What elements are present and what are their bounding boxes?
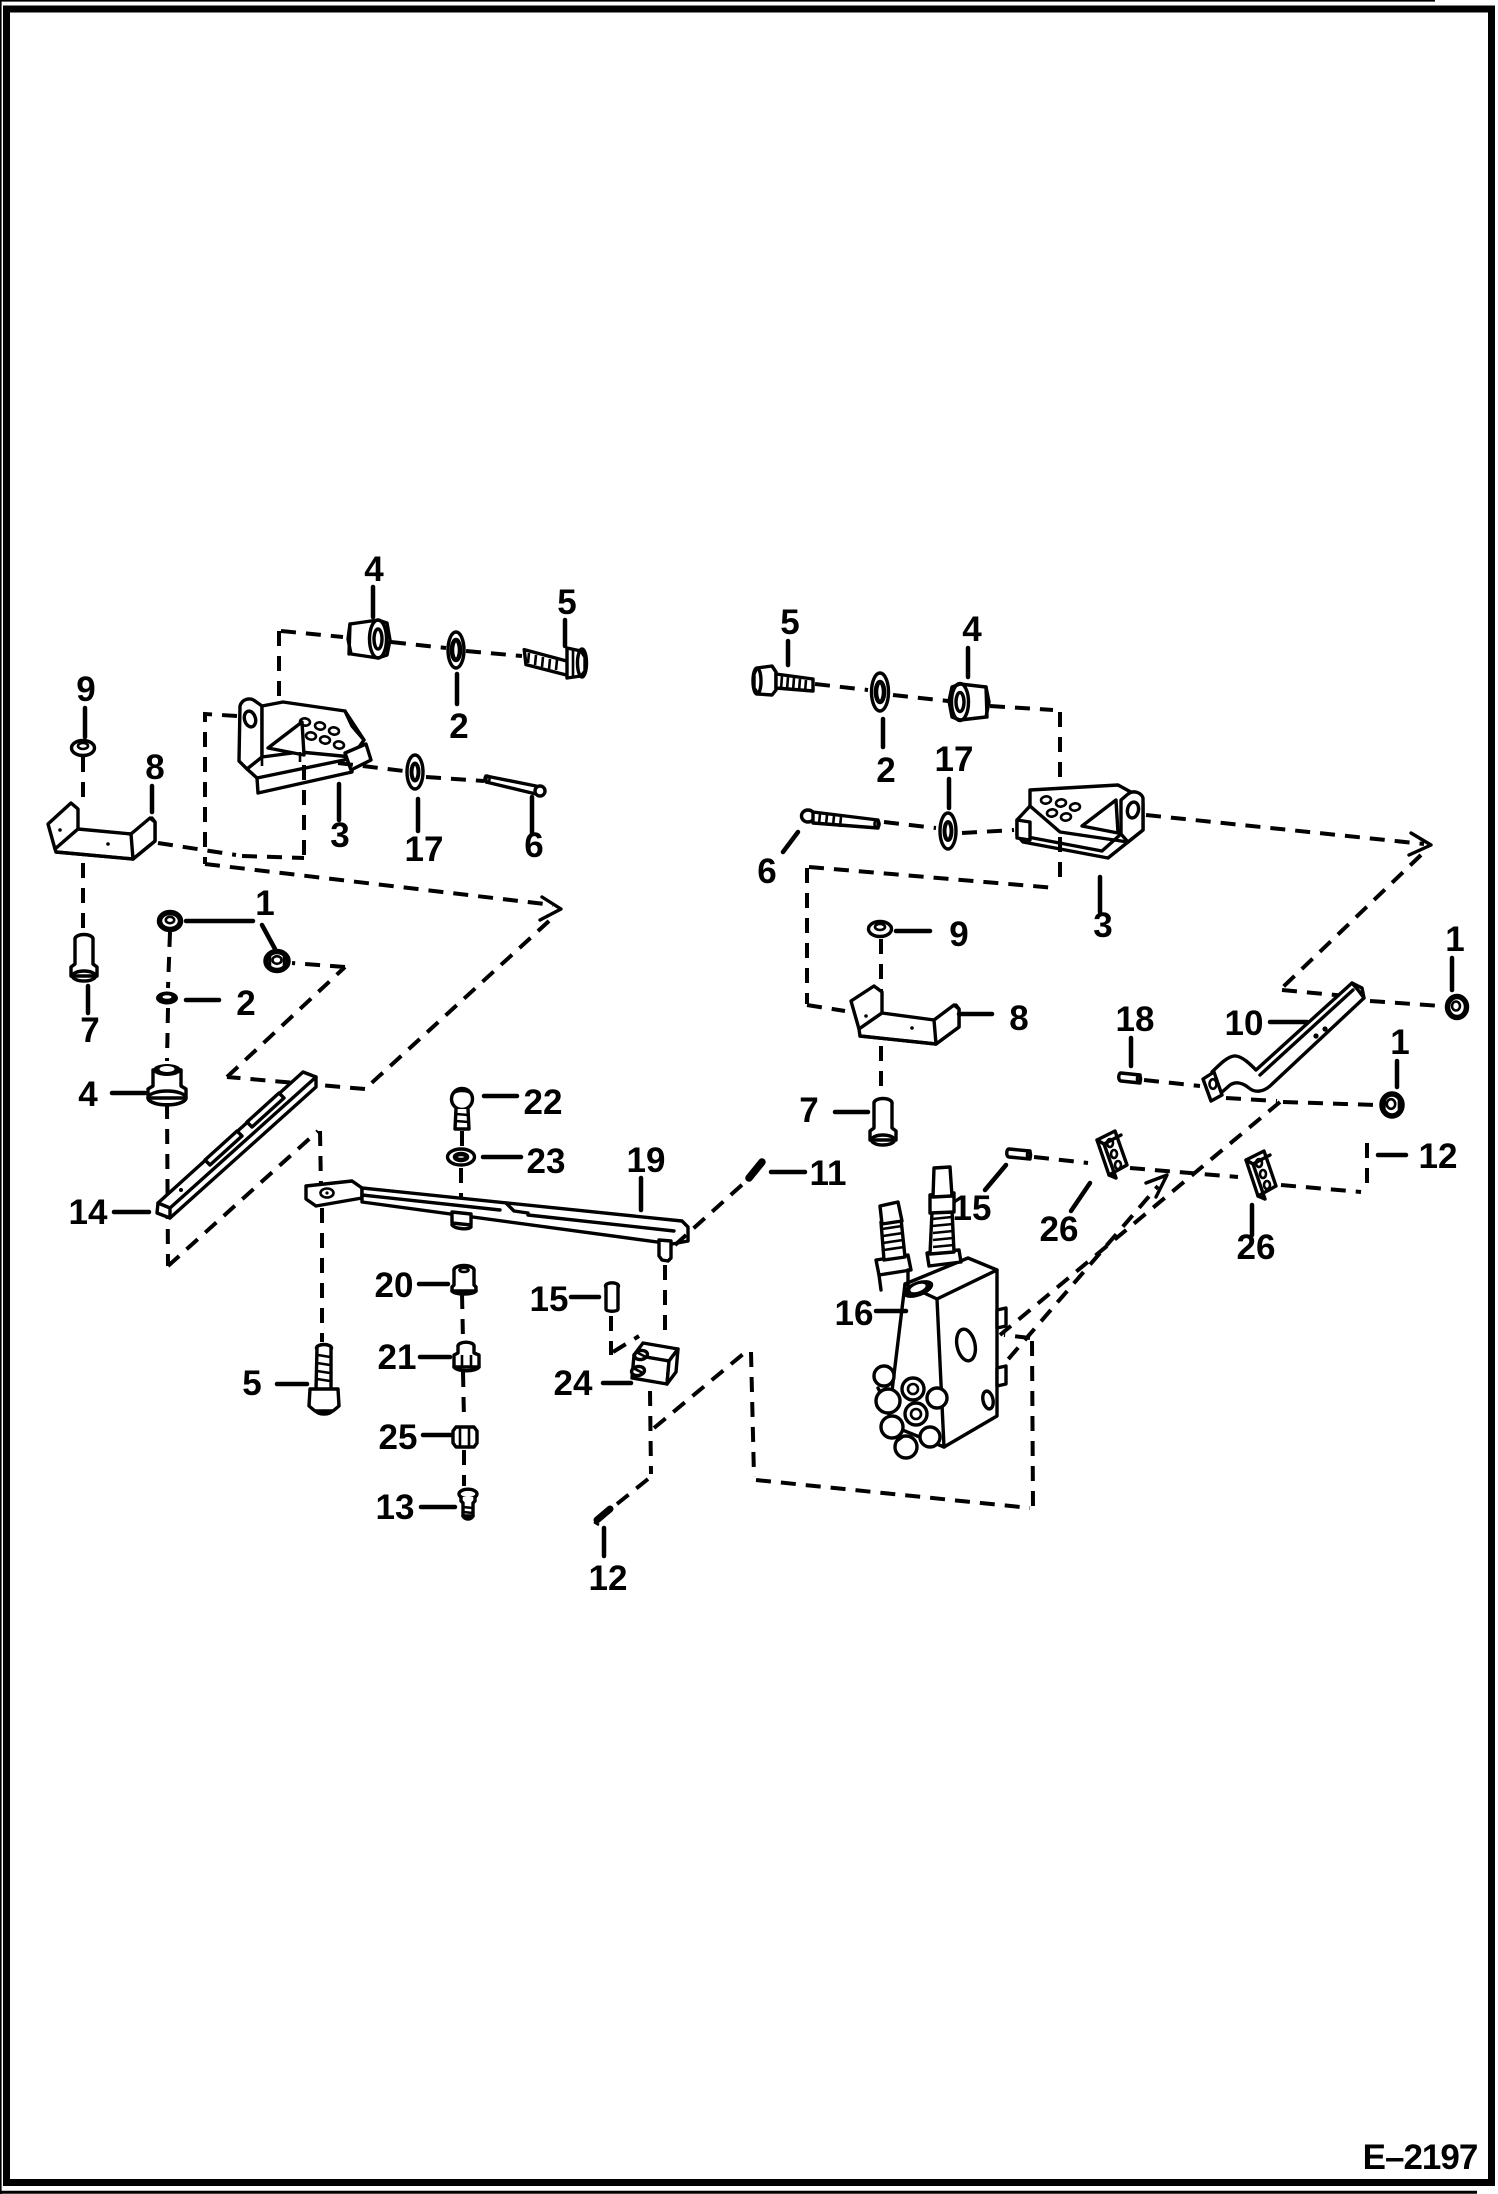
bolt 7 (left, carriage): [71, 935, 97, 982]
pin 15 (center): [606, 1283, 619, 1311]
svg-text:23: 23: [527, 1142, 566, 1181]
label 8 (left): [145, 748, 164, 812]
border thin left edge: [0, 0, 2, 2194]
valve stem right: [927, 1250, 961, 1266]
label 13: [376, 1488, 455, 1527]
svg-text:13: 13: [376, 1488, 415, 1527]
wire dashed channel8L to bracket corner: [158, 764, 304, 858]
svg-text:1: 1: [1390, 1023, 1409, 1062]
strap 26 (second): [1246, 1151, 1276, 1199]
label 4 (right): [962, 610, 982, 677]
label 8 (right): [959, 999, 1029, 1038]
wire dashed pin15 to clamp24: [611, 1316, 639, 1355]
label 17 (left): [405, 799, 444, 869]
wire dashed apex down-left to corner and to lever10: [1282, 855, 1441, 1006]
channel bracket 8 (left): [48, 803, 155, 859]
label 15 (center): [530, 1280, 599, 1319]
label 17 (right): [935, 740, 974, 808]
nut 1 (upper small, left): [160, 913, 181, 930]
svg-text:7: 7: [799, 1091, 818, 1130]
washer 17 (right): [940, 813, 956, 849]
svg-text:7: 7: [80, 1011, 99, 1050]
label 1 (right lower): [1390, 1023, 1409, 1087]
label 2 (left lower): [186, 984, 256, 1023]
border thin top edge: [0, 0, 1435, 2]
svg-text:3: 3: [1093, 906, 1112, 945]
bolt 6 (right): [802, 810, 880, 828]
label 18: [1116, 1000, 1155, 1066]
wire dashed corner down to bracket 3L: [277, 631, 281, 719]
washer 9 (left): [72, 741, 95, 756]
arrowhead apex left wedge: [540, 897, 561, 920]
label 2 (top left): [449, 674, 468, 746]
label 24: [554, 1364, 631, 1403]
dashed outline left plate wedge: [205, 714, 553, 905]
label 16: [835, 1294, 906, 1333]
wire dashed bracket3L to pin6L: [338, 763, 484, 781]
svg-text:8: 8: [1009, 999, 1028, 1038]
label 3 (right): [1093, 877, 1112, 945]
svg-text:17: 17: [405, 830, 444, 869]
washer 23: [448, 1149, 475, 1165]
bushing 4 (right): [949, 684, 989, 721]
label 1 (left) with bent leader: [186, 884, 275, 949]
arrowhead on diagonal: [1146, 1175, 1167, 1197]
wire dashed clamp24 down and to pin 12: [617, 1391, 651, 1504]
label 4 (top left): [364, 550, 384, 617]
svg-text:2: 2: [449, 707, 468, 746]
svg-text:9: 9: [76, 670, 95, 709]
label 22: [484, 1083, 562, 1122]
valve stem left: [876, 1255, 911, 1275]
svg-text:19: 19: [627, 1141, 666, 1180]
svg-text:11: 11: [810, 1154, 847, 1193]
svg-text:4: 4: [364, 550, 384, 589]
label 5 (center-left): [242, 1364, 307, 1403]
svg-text:5: 5: [557, 583, 576, 622]
label 6 (left): [524, 797, 543, 865]
wire dashed lever19 right end to pin 11: [675, 1183, 744, 1245]
fitting 21: [454, 1342, 479, 1371]
valve top detail: [900, 1276, 935, 1301]
svg-text:21: 21: [378, 1338, 417, 1377]
svg-text:1: 1: [255, 884, 274, 923]
svg-text:4: 4: [78, 1075, 98, 1114]
lever 19: [306, 1181, 688, 1261]
wire dashed lever10 lower line to nut: [1226, 1098, 1376, 1105]
label 21: [378, 1338, 450, 1377]
label 5 (top left): [557, 583, 576, 646]
wire dashed vertical nut1-washer2-bushing4 (left): [167, 932, 170, 1266]
svg-text:2: 2: [236, 984, 255, 1023]
nut 25: [453, 1427, 477, 1447]
bushing 20: [452, 1266, 476, 1295]
channel bracket 8 (right): [851, 986, 959, 1044]
strap 14: [157, 1072, 316, 1218]
wire dashed 12 right bracket: [1365, 1143, 1369, 1190]
svg-text:14: 14: [69, 1193, 108, 1232]
label 19: [627, 1141, 666, 1210]
svg-text:5: 5: [780, 603, 799, 642]
bolt 7 (right, carriage): [870, 1099, 896, 1146]
label 7 (left): [80, 986, 99, 1050]
washer 2 (top left): [448, 632, 464, 668]
label 12 (center): [589, 1528, 628, 1598]
bolt 13: [459, 1489, 477, 1519]
wire dashed bolt5R-washer2R-bushing4R: [815, 684, 1053, 710]
wire dashed bushing4L to bolt5L: [281, 631, 522, 656]
pin 18: [1119, 1073, 1141, 1083]
bolt 5 (top left): [524, 648, 587, 678]
dashed wedge return edges: [227, 921, 549, 1089]
washer 2 (left lower small): [156, 992, 178, 1005]
pin 11: [749, 1162, 762, 1178]
label 3 (left): [330, 784, 349, 855]
svg-text:8: 8: [145, 748, 164, 787]
wire dashed bolt22-washer23-lever19: [461, 1131, 462, 1211]
svg-text:17: 17: [935, 740, 974, 779]
bushing 4 (left lower): [148, 1064, 186, 1105]
wire dashed bushing4R corner down: [1058, 712, 1062, 884]
svg-text:22: 22: [524, 1083, 563, 1122]
wire dashed washer9R down to channel8R: [879, 939, 883, 1012]
label 11: [771, 1154, 847, 1193]
label 4 (left lower): [78, 1075, 145, 1114]
label 26 (first): [1040, 1183, 1090, 1249]
label 25: [379, 1418, 451, 1457]
wire dashed bolt6R-washer17R-bracket3R: [884, 822, 1014, 833]
svg-text:24: 24: [554, 1364, 593, 1403]
pin 15 (right): [1007, 1149, 1031, 1159]
svg-text:20: 20: [375, 1266, 414, 1305]
bracket 3 (right): [1017, 785, 1143, 858]
svg-text:26: 26: [1040, 1210, 1079, 1249]
svg-text:12: 12: [589, 1559, 628, 1598]
label 6 (right): [757, 832, 798, 891]
svg-text:9: 9: [949, 915, 968, 954]
label 1 (right upper): [1445, 920, 1464, 990]
label 20: [375, 1266, 448, 1305]
label 15 (right): [953, 1165, 1006, 1228]
pin 12 (center): [594, 1509, 610, 1525]
border thin bottom edge: [0, 2191, 1477, 2194]
wire dashed fittings chain: [462, 1294, 464, 1486]
svg-text:10: 10: [1225, 1004, 1264, 1043]
bushing 4 (top left): [348, 620, 390, 658]
svg-text:18: 18: [1116, 1000, 1155, 1039]
wire dashed long diagonal lever10 corner to valve: [1000, 1102, 1280, 1335]
label 7 (right): [799, 1091, 868, 1130]
valve 16: [874, 1167, 1006, 1458]
clamp 24: [631, 1343, 678, 1384]
svg-text:4: 4: [962, 610, 982, 649]
bolt 5 (right): [753, 666, 813, 695]
strap 26 (first): [1097, 1131, 1127, 1178]
bolt 5 (center-left, vertical): [309, 1345, 339, 1415]
svg-text:1: 1: [1445, 920, 1464, 959]
washer 9 (right): [869, 922, 892, 937]
washer 2 (right): [872, 673, 889, 711]
wire dashed pin15R through straps 26: [1034, 1157, 1361, 1192]
svg-text:12: 12: [1419, 1137, 1458, 1176]
wire dashed washer9 down through channel8L to bolt7L: [81, 757, 85, 930]
wire dashed channel8R down to bolt7R: [879, 1046, 883, 1096]
svg-text:E–2197: E–2197: [1363, 2138, 1478, 2177]
bracket 3 (left): [239, 699, 371, 793]
label 12 (right): [1378, 1137, 1457, 1176]
svg-text:6: 6: [757, 852, 776, 891]
wire dashed diagonal valve to strap with arrow: [992, 1186, 1158, 1378]
svg-text:5: 5: [242, 1364, 261, 1403]
label 23: [483, 1142, 565, 1181]
arrowhead right apex: [1409, 833, 1431, 855]
svg-text:25: 25: [379, 1418, 418, 1457]
lever 10: [1203, 983, 1364, 1101]
pin 6 (left): [485, 776, 546, 797]
label 14: [69, 1193, 149, 1232]
wire dashed pin18 to lever10: [1144, 1080, 1200, 1086]
valve ports cluster: [874, 1366, 947, 1458]
bolt 22: [452, 1089, 473, 1130]
wire dashed bracket3R to far right apex with arrow: [1146, 815, 1424, 844]
label 5 (right): [780, 603, 799, 665]
label 10: [1225, 1004, 1307, 1043]
nut 1 (second, left): [266, 952, 288, 971]
wire dashed vertical to bolt 5 (center-left): [320, 1131, 322, 1342]
label 2 (right): [876, 719, 895, 790]
nut 1 (right lower): [1382, 1094, 1402, 1116]
svg-text:15: 15: [530, 1280, 569, 1319]
wire dashed diagonal plate fold (left): [168, 1131, 318, 1266]
dashed box around bracket 3R: [807, 867, 1056, 1011]
svg-text:15: 15: [953, 1189, 992, 1228]
wire dashed lever19 hook to clamp24: [663, 1265, 667, 1337]
svg-text:2: 2: [876, 751, 895, 790]
nut 1 (right upper): [1448, 997, 1467, 1018]
label 9 (left): [76, 670, 95, 737]
label 9 (right): [896, 915, 969, 954]
wire dashed valve box: [654, 1335, 1033, 1508]
svg-text:26: 26: [1237, 1228, 1276, 1267]
svg-text:16: 16: [835, 1294, 874, 1333]
label 26 (second): [1237, 1205, 1276, 1267]
washer 17 (left): [407, 755, 423, 789]
